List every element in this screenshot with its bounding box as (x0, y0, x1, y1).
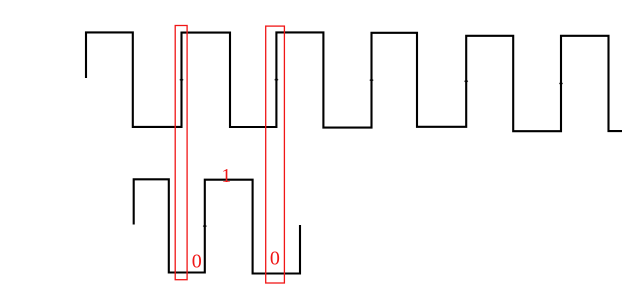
node marker on clock rising edge 5 (464, 80, 468, 82)
node marker on data rising edge (203, 225, 207, 227)
node marker on clock rising edge 2 (180, 79, 184, 81)
node marker on clock rising edge 4 (370, 79, 374, 81)
node marker on clock rising edge 3 (275, 79, 279, 81)
clock waveform (86, 32, 622, 131)
data waveform (134, 179, 300, 273)
node marker on clock rising edge 6 (559, 83, 563, 85)
svg-text:1: 1 (221, 166, 231, 187)
red sampling rectangle 1 (175, 26, 187, 280)
svg-text:0: 0 (192, 250, 202, 272)
red sampling rectangle 2 (266, 26, 285, 283)
svg-text:0: 0 (270, 248, 280, 270)
